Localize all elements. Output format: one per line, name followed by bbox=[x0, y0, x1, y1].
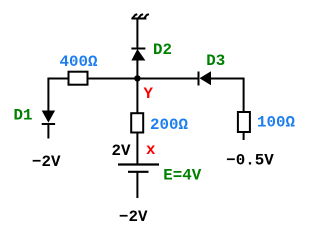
svg-text:−2V: −2V bbox=[32, 153, 61, 171]
wire 200ohm to battery bbox=[136, 133, 138, 165]
wire 100ohm stub bbox=[243, 132, 245, 140]
node Y junction dot bbox=[134, 75, 140, 81]
resistor 400ohm bbox=[69, 72, 88, 85]
svg-text:x: x bbox=[146, 141, 156, 159]
svg-text:−2V: −2V bbox=[119, 208, 148, 226]
svg-text:100Ω: 100Ω bbox=[257, 114, 295, 132]
svg-text:D3: D3 bbox=[206, 52, 225, 70]
wire ground to D2 bbox=[136, 19, 138, 50]
ground bbox=[132, 14, 149, 19]
wire left vertical bbox=[47, 78, 49, 112]
wire node Y to 200ohm bbox=[136, 79, 138, 114]
diode D1 bbox=[42, 111, 55, 125]
svg-text:Y: Y bbox=[144, 85, 154, 103]
resistor 100ohm bbox=[238, 112, 250, 132]
resistor 200ohm bbox=[131, 113, 143, 132]
svg-text:D2: D2 bbox=[153, 41, 172, 59]
svg-text:−0.5V: −0.5V bbox=[226, 152, 274, 170]
wire D2 to node Y bbox=[136, 60, 138, 79]
svg-text:E=4V: E=4V bbox=[163, 166, 201, 184]
wire battery stub bbox=[136, 172, 138, 198]
svg-text:2V: 2V bbox=[112, 142, 131, 160]
svg-text:400Ω: 400Ω bbox=[60, 53, 98, 71]
wire right vertical bbox=[243, 78, 245, 113]
wire main horizontal left section bbox=[48, 78, 68, 80]
wire D3 to right corner bbox=[211, 78, 244, 80]
wire D1 stub bbox=[47, 124, 49, 139]
diode D2 bbox=[131, 49, 145, 61]
wire resistor to node Y bbox=[88, 78, 199, 80]
battery E bbox=[118, 165, 159, 172]
svg-text:D1: D1 bbox=[14, 107, 33, 125]
diode D3 bbox=[199, 71, 212, 85]
svg-text:200Ω: 200Ω bbox=[150, 116, 188, 134]
